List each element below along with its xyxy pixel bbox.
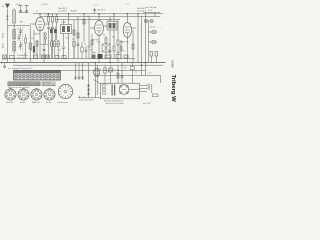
capacitor C20 xyxy=(74,77,77,78)
svg-text:L 2,5 H: L 2,5 H xyxy=(41,4,48,6)
label EL84 xyxy=(150,27,155,29)
wire xyxy=(13,23,15,63)
label Ua240 xyxy=(58,11,68,13)
capacitor C6 xyxy=(51,27,54,58)
svg-text:Ua=235 V: Ua=235 V xyxy=(137,10,147,12)
label socket V1 xyxy=(7,102,14,104)
capacitor C21 xyxy=(78,77,81,78)
node K xyxy=(137,13,138,14)
svg-text:Ub= 85 V: Ub= 85 V xyxy=(97,10,106,12)
wire xyxy=(13,64,163,66)
gang link xyxy=(22,28,24,56)
node I xyxy=(83,13,84,14)
resistor R1 xyxy=(29,43,31,49)
wire xyxy=(75,63,77,80)
svg-text:100: 100 xyxy=(58,50,61,52)
resistor R21 xyxy=(62,56,66,59)
diode D3 xyxy=(87,93,90,95)
wire xyxy=(19,12,29,14)
node B xyxy=(7,19,8,20)
resistor R15 xyxy=(152,41,156,44)
wire xyxy=(88,63,90,98)
label Triberg W xyxy=(170,75,176,103)
wire xyxy=(30,23,36,25)
label out 1 xyxy=(99,68,101,70)
svg-text:1k: 1k xyxy=(51,14,53,16)
coil L2 xyxy=(13,30,16,40)
wire xyxy=(120,40,122,59)
label 0,1a xyxy=(94,4,98,6)
tube socket V1 xyxy=(5,88,16,100)
trim table xyxy=(42,82,55,86)
resistor R22 xyxy=(105,55,111,58)
diode D2 xyxy=(87,89,90,91)
wire xyxy=(103,25,108,27)
label bottom-right xyxy=(143,103,150,105)
svg-text:8k: 8k xyxy=(30,50,32,52)
dial scale xyxy=(8,82,40,86)
wire xyxy=(109,17,111,22)
wire xyxy=(145,13,147,76)
svg-text:Rückansicht: Rückansicht xyxy=(58,101,69,104)
svg-text:0,05: 0,05 xyxy=(97,42,101,44)
svg-text:Ub=80V: Ub=80V xyxy=(70,11,77,13)
terminal 3 xyxy=(103,92,106,94)
label box internal xyxy=(103,84,112,86)
wire xyxy=(40,44,48,46)
label sp1 xyxy=(20,21,23,24)
svg-text:1n: 1n xyxy=(129,24,131,26)
node J xyxy=(113,13,114,14)
svg-text:5k: 5k xyxy=(84,44,86,46)
label sp6 xyxy=(86,16,89,18)
label EABC80 xyxy=(120,41,129,44)
svg-text:W 31: W 31 xyxy=(2,42,4,48)
svg-text:Fi 460: Fi 460 xyxy=(61,22,66,24)
wire xyxy=(121,63,123,84)
trimmer C3 xyxy=(19,27,23,36)
svg-text:Triberg W: Triberg W xyxy=(170,75,176,103)
resistor R19 xyxy=(34,55,38,59)
capacitor C10 xyxy=(109,51,112,63)
voltage table xyxy=(14,71,61,81)
label W30 xyxy=(2,32,4,38)
svg-text:Selen-Gleichrichter: Selen-Gleichrichter xyxy=(79,99,95,102)
switch S1 xyxy=(3,55,7,59)
wire xyxy=(63,34,65,47)
label sockets top xyxy=(8,86,30,89)
wire xyxy=(6,14,8,26)
wire xyxy=(143,12,160,14)
label EF89 xyxy=(93,40,99,42)
node D xyxy=(145,62,146,63)
label trafo xyxy=(104,100,124,103)
node L2 xyxy=(48,13,49,14)
resistor R32 xyxy=(104,65,107,83)
wire xyxy=(160,75,162,83)
svg-text:max 300 mA: max 300 mA xyxy=(146,6,157,9)
label c8 xyxy=(90,50,92,52)
svg-text:100: 100 xyxy=(86,16,89,18)
capacitor C14 xyxy=(54,27,57,40)
resistor R26 xyxy=(81,42,83,59)
svg-text:4µ: 4µ xyxy=(99,68,101,70)
resistor R17 xyxy=(155,52,158,63)
label mid 3 xyxy=(97,42,101,44)
switch S5 xyxy=(109,65,113,83)
wire xyxy=(96,74,142,76)
wire xyxy=(33,13,163,15)
resistor R11 xyxy=(105,36,107,59)
terminal 1 xyxy=(103,85,106,87)
capacitor C11 xyxy=(92,55,96,59)
label speaker xyxy=(58,101,69,104)
tube V3 xyxy=(123,23,131,38)
ground xyxy=(3,63,6,69)
svg-text:Röhren von unten gesehen: Röhren von unten gesehen xyxy=(8,86,30,89)
capacitor C22 xyxy=(81,77,84,78)
label Ua235 xyxy=(137,10,147,12)
wire xyxy=(88,17,90,46)
label Ub245 xyxy=(58,8,68,10)
svg-text:ECH 81: ECH 81 xyxy=(7,102,14,104)
resistor R27 xyxy=(91,40,93,45)
node H xyxy=(68,13,69,14)
jack J2 xyxy=(150,19,153,22)
wire xyxy=(78,63,80,80)
label out 3 xyxy=(124,67,126,69)
svg-text:2k: 2k xyxy=(24,54,26,56)
svg-text:0,1: 0,1 xyxy=(123,51,126,53)
resistor R29 xyxy=(132,44,134,49)
resistor R2 xyxy=(48,14,50,27)
switch S4 xyxy=(102,44,110,52)
switch S2 xyxy=(42,55,46,59)
wire xyxy=(97,65,99,95)
label mid 4 xyxy=(112,37,115,39)
capacitor C5 xyxy=(47,27,50,58)
output transformer Tr1 xyxy=(94,68,100,76)
resistor R14 xyxy=(152,31,156,34)
resistor R30 xyxy=(25,34,27,48)
wire xyxy=(55,19,120,21)
coil L1 xyxy=(13,10,16,23)
node F xyxy=(98,13,99,14)
svg-text:Ua=240 V: Ua=240 V xyxy=(58,11,68,13)
label c7 xyxy=(58,50,61,52)
label r1 xyxy=(46,14,49,16)
resistor R4 xyxy=(56,14,58,27)
wire xyxy=(39,14,41,17)
wire xyxy=(33,30,35,59)
svg-text:0,1: 0,1 xyxy=(113,69,115,71)
wire xyxy=(126,37,128,62)
capacitor C19 xyxy=(43,50,46,51)
svg-text:prim. 220 V: prim. 220 V xyxy=(103,84,112,86)
wire xyxy=(83,96,85,98)
terminal 2 xyxy=(103,89,106,91)
antenna xyxy=(5,4,10,14)
wire xyxy=(40,16,160,18)
node A xyxy=(7,16,8,17)
capacitor C1 xyxy=(19,5,23,12)
wire xyxy=(94,80,101,85)
svg-text:50: 50 xyxy=(90,50,92,52)
switch S3 xyxy=(46,55,50,59)
svg-text:EL 84: EL 84 xyxy=(150,27,155,29)
svg-text:0,1: 0,1 xyxy=(72,39,75,41)
svg-text:0,5: 0,5 xyxy=(103,35,105,37)
label rectifier xyxy=(79,99,95,102)
capacitor C16 xyxy=(85,46,88,59)
wire xyxy=(132,27,137,29)
wire xyxy=(29,26,31,63)
IF transformer Fi1 xyxy=(61,25,72,34)
wire xyxy=(95,63,97,98)
wire xyxy=(25,48,27,59)
wire xyxy=(68,14,70,25)
trimmer C9 xyxy=(93,8,96,14)
node S xyxy=(1,62,2,63)
jack J1 xyxy=(144,19,147,22)
wire xyxy=(148,20,150,63)
node R xyxy=(110,62,111,63)
resistor R12 xyxy=(113,45,115,59)
label left coil xyxy=(9,27,10,29)
wire xyxy=(7,25,30,27)
wire xyxy=(68,34,70,59)
label sp7 xyxy=(70,11,77,13)
wire xyxy=(132,30,134,63)
node M xyxy=(44,33,46,35)
power box xyxy=(101,83,140,99)
svg-text:460: 460 xyxy=(66,38,69,40)
wire xyxy=(149,31,158,33)
wire xyxy=(109,30,111,50)
label row 1 xyxy=(17,55,28,57)
svg-text:0,1: 0,1 xyxy=(36,11,39,13)
label Ub240 xyxy=(137,8,147,10)
wire xyxy=(13,9,15,11)
label row 3 xyxy=(92,52,97,54)
label L2,5H xyxy=(41,4,48,6)
svg-text:5k: 5k xyxy=(135,71,137,73)
wire xyxy=(63,20,65,25)
capacitor C23 xyxy=(121,76,124,77)
svg-text:Anschluss siehe Tabelle: Anschluss siehe Tabelle xyxy=(106,102,124,105)
wire xyxy=(6,26,8,63)
wire xyxy=(113,30,115,45)
transformer core xyxy=(112,85,116,96)
coil L3 xyxy=(13,42,16,52)
label trafo 2 xyxy=(106,102,124,105)
resistor R7 xyxy=(57,40,59,59)
label sp5 xyxy=(129,24,131,26)
wire xyxy=(141,17,143,76)
label r3 xyxy=(56,14,58,16)
trimmer C4 xyxy=(19,41,23,50)
plug P1 xyxy=(148,84,150,89)
resistor R10 xyxy=(83,20,85,25)
label SABA xyxy=(171,60,175,68)
label fi1 xyxy=(61,22,66,24)
svg-text:2,5m: 2,5m xyxy=(16,4,21,6)
tube socket V2 xyxy=(18,88,29,100)
svg-text:0,1: 0,1 xyxy=(31,38,33,40)
resistor R28 xyxy=(120,46,122,51)
label left 2 xyxy=(24,54,26,56)
resistor R5 xyxy=(51,40,53,59)
wire xyxy=(154,13,156,17)
svg-text:ECH 81: ECH 81 xyxy=(34,34,42,36)
label W31 xyxy=(2,42,4,48)
capacitor C15 xyxy=(77,44,80,59)
svg-text:L: L xyxy=(9,27,10,29)
wire xyxy=(117,65,119,83)
label mid 2 xyxy=(84,44,86,46)
tube V1 xyxy=(36,17,45,31)
resistor R23 xyxy=(116,55,121,59)
resistor R33 xyxy=(117,73,119,78)
resistor R6 xyxy=(54,40,56,59)
wire xyxy=(50,43,60,45)
wire xyxy=(98,14,100,21)
label mid 5 xyxy=(123,51,126,53)
IF transformer Fi2 xyxy=(107,22,117,31)
tube V2 xyxy=(95,20,104,35)
svg-text:50: 50 xyxy=(124,67,126,69)
svg-text:6,3 V: 6,3 V xyxy=(148,10,153,12)
capacitor C13 xyxy=(50,27,53,40)
capacitor C17 xyxy=(18,34,21,41)
wire xyxy=(129,89,140,91)
node G xyxy=(127,13,128,14)
wire xyxy=(1,62,166,64)
label row 4 xyxy=(116,52,121,54)
label Federn xyxy=(8,68,34,70)
label V1 top xyxy=(36,11,39,13)
wire xyxy=(79,96,81,98)
svg-text:EF 89: EF 89 xyxy=(20,102,25,104)
label left 3 xyxy=(31,38,33,40)
resistor R20 xyxy=(55,56,59,59)
wire xyxy=(98,36,100,63)
tube socket V3 xyxy=(31,88,42,100)
fuse F1 xyxy=(153,94,159,97)
label Ub85 xyxy=(97,10,106,12)
label fi2 xyxy=(107,20,112,22)
wire xyxy=(142,74,161,76)
wire xyxy=(73,20,75,59)
svg-text:EABC 80: EABC 80 xyxy=(32,101,40,104)
wire xyxy=(39,31,41,59)
wire xyxy=(113,14,115,22)
label link xyxy=(149,72,152,74)
wire xyxy=(36,40,38,59)
motor M1 xyxy=(119,85,129,95)
node N xyxy=(44,35,46,44)
svg-text:0,3: 0,3 xyxy=(56,14,58,16)
svg-text:SABA: SABA xyxy=(171,60,175,68)
wire xyxy=(13,69,146,71)
label socket V3 xyxy=(32,101,40,104)
wire xyxy=(78,97,101,99)
resistor R16 xyxy=(150,52,153,63)
label sp2 xyxy=(103,35,105,37)
wire xyxy=(77,17,79,47)
diode D1 xyxy=(87,85,90,87)
resistor R25 xyxy=(73,42,75,59)
wire xyxy=(140,85,148,87)
capacitor C2 xyxy=(25,5,29,12)
capacitor C7 xyxy=(62,47,65,59)
label ECH81 xyxy=(34,34,42,36)
node O xyxy=(104,70,105,71)
speaker xyxy=(58,84,72,98)
wire xyxy=(82,63,84,80)
label out 4 xyxy=(135,71,137,73)
wire xyxy=(151,84,153,93)
resistor R8 xyxy=(73,30,75,35)
label r2 xyxy=(51,14,53,16)
label row 2 xyxy=(17,58,27,60)
svg-text:W 30: W 30 xyxy=(2,32,4,38)
label sp3 xyxy=(30,50,32,52)
wire xyxy=(2,58,135,60)
wire xyxy=(140,91,148,93)
label top-right 2 xyxy=(148,10,153,12)
capacitor C18 xyxy=(33,46,35,53)
wire xyxy=(91,34,93,59)
svg-text:5 u. 6 gegen Chassis 6,3 V~: 5 u. 6 gegen Chassis 6,3 V~ xyxy=(8,68,34,70)
resistor R18 xyxy=(10,56,15,59)
label left 1 xyxy=(17,29,19,31)
wire xyxy=(140,88,148,90)
svg-text:EABC 80: EABC 80 xyxy=(120,41,129,44)
label top-right 1 xyxy=(146,6,157,9)
label socket V4 xyxy=(46,102,51,104)
wire xyxy=(44,23,50,25)
wire xyxy=(90,27,95,29)
svg-text:gez. 4.53: gez. 4.53 xyxy=(143,103,150,105)
svg-text:Fi 460: Fi 460 xyxy=(107,20,112,22)
resistor R31 xyxy=(36,41,38,46)
resistor R3 xyxy=(52,14,54,27)
resistor R13 xyxy=(117,20,119,63)
node P xyxy=(117,70,118,71)
resistor R24 xyxy=(124,55,128,58)
wire xyxy=(56,27,58,40)
tube socket V4 xyxy=(44,88,55,100)
label mid 1 xyxy=(72,39,75,41)
label sp4 xyxy=(66,38,69,40)
capacitor C8 xyxy=(88,46,91,59)
label A xyxy=(2,5,4,8)
resistor R9 xyxy=(77,33,79,38)
capacitor C12 xyxy=(98,54,103,59)
svg-text:30: 30 xyxy=(17,29,19,31)
label out 2 xyxy=(113,69,115,71)
label 2,5m xyxy=(16,4,21,6)
wire xyxy=(126,14,128,23)
wire xyxy=(43,32,45,63)
resistor R34 xyxy=(131,63,135,84)
label socket V2 xyxy=(20,102,25,104)
wire xyxy=(149,41,158,43)
node E xyxy=(39,13,40,14)
node Q xyxy=(95,62,96,63)
node C xyxy=(141,65,142,66)
